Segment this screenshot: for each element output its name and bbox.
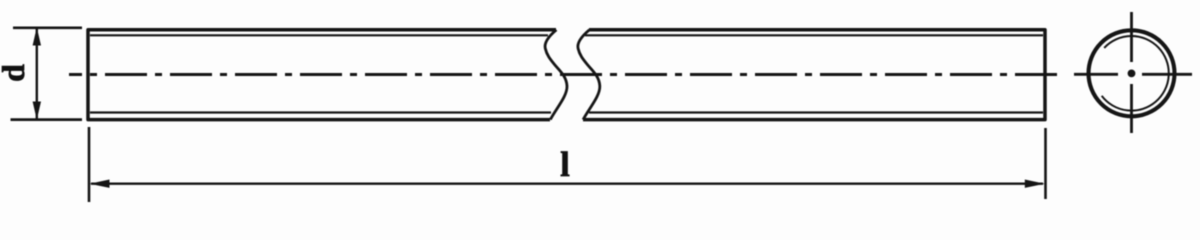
extension line bottom (dim d)	[11, 118, 83, 121]
dimension line l	[91, 182, 1043, 184]
thread root line bottom-right	[589, 111, 1043, 113]
centerline of rod (dash-dot)	[69, 73, 1059, 76]
end view outer circle	[1089, 30, 1175, 116]
extension line left (dim l)	[88, 127, 91, 202]
svg-text:l: l	[560, 145, 570, 184]
end view thread root arc (3/4 circle)	[1102, 36, 1169, 111]
circle horizontal centerline	[1074, 73, 1192, 76]
arrow l left	[90, 180, 110, 188]
arrow d bottom	[33, 102, 41, 120]
extension line right (dim l)	[1044, 128, 1047, 199]
rod outline left segment	[88, 30, 556, 120]
rod outline right segment	[583, 30, 1045, 120]
extension line top (dim d)	[13, 26, 82, 29]
thread root line bottom-left	[90, 111, 551, 113]
thread root line top-right	[585, 34, 1043, 36]
arrow d top	[33, 27, 41, 45]
break line left	[545, 30, 567, 120]
arrow l right	[1025, 180, 1045, 188]
circle center dot	[1128, 70, 1136, 78]
circle vertical centerline	[1130, 12, 1133, 133]
break line right	[578, 30, 600, 120]
dimension line d	[36, 29, 38, 119]
svg-text:d: d	[0, 64, 31, 82]
thread root line top-left	[90, 34, 548, 36]
